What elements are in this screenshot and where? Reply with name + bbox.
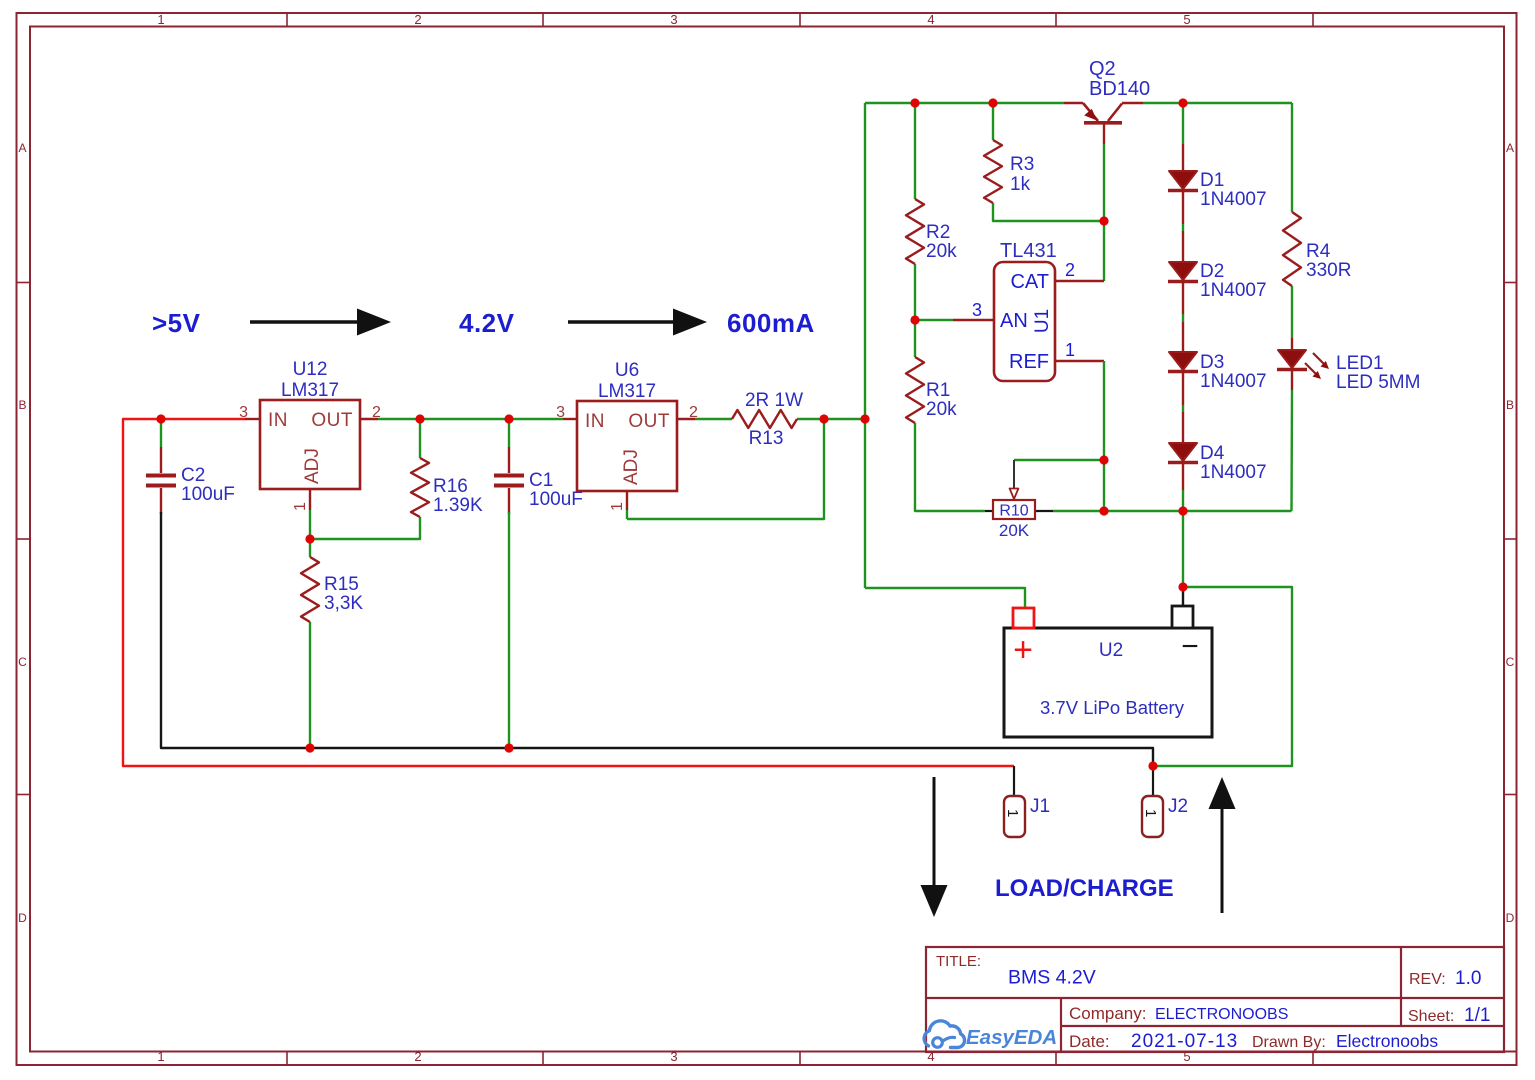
svg-text:2: 2 xyxy=(689,404,698,421)
svg-text:1/1: 1/1 xyxy=(1464,1005,1490,1026)
svg-text:BMS 4.2V: BMS 4.2V xyxy=(1008,967,1096,989)
wire D4 bottom xyxy=(1182,462,1184,587)
svg-text:B: B xyxy=(1506,398,1514,412)
svg-text:600mA: 600mA xyxy=(727,308,815,338)
wire Q2 base xyxy=(1103,123,1105,281)
wire to battery + xyxy=(865,588,1025,608)
wire LED bottom xyxy=(1290,371,1293,511)
wire R16 top xyxy=(419,419,421,458)
svg-text:Company:: Company: xyxy=(1069,1004,1146,1023)
svg-text:2: 2 xyxy=(414,1049,421,1064)
pin 3 U1 xyxy=(972,300,982,320)
svg-text:3: 3 xyxy=(556,404,565,421)
transistor Q2 BD140 xyxy=(1064,103,1143,123)
svg-text:D4: D4 xyxy=(1200,443,1225,464)
svg-text:U2: U2 xyxy=(1099,640,1123,661)
junction node (915,103) xyxy=(910,98,919,107)
svg-text:LM317: LM317 xyxy=(281,380,339,401)
wire GND black rail xyxy=(161,512,1153,766)
svg-text:LED 5MM: LED 5MM xyxy=(1336,372,1420,393)
junction node (1153,766) xyxy=(1148,761,1157,770)
label D3 xyxy=(1200,352,1224,373)
wire D2-D3 xyxy=(1182,281,1184,352)
flow arrow 1 xyxy=(250,309,391,336)
junction node (1104,221) xyxy=(1099,216,1108,225)
svg-text:100uF: 100uF xyxy=(529,489,583,510)
resistor R4 xyxy=(1283,212,1301,286)
svg-text:1.39K: 1.39K xyxy=(433,495,483,516)
potentiometer R10 xyxy=(985,460,1053,520)
svg-text:2R 1W: 2R 1W xyxy=(745,390,803,411)
label Q2 value xyxy=(1089,78,1150,100)
svg-text:ADJ: ADJ xyxy=(621,449,642,485)
resistor R13 xyxy=(732,410,797,428)
label C2 value xyxy=(181,484,235,505)
EasyEDA logo xyxy=(924,1021,1057,1049)
svg-text:TL431: TL431 xyxy=(1000,240,1057,262)
pin 1 U12 xyxy=(292,502,309,511)
svg-text:3: 3 xyxy=(670,1049,677,1064)
svg-text:C: C xyxy=(1506,655,1515,669)
wire R2-R1 mid xyxy=(914,264,916,357)
label R10 value xyxy=(999,521,1030,540)
pin 1 U1 xyxy=(1065,340,1075,360)
svg-text:C1: C1 xyxy=(529,470,553,491)
svg-text:−: − xyxy=(1181,630,1199,663)
svg-text:1.0: 1.0 xyxy=(1455,968,1481,989)
svg-text:A: A xyxy=(18,141,26,155)
pin 3 U6 xyxy=(556,404,565,421)
annotation 600mA xyxy=(727,308,815,338)
svg-text:1: 1 xyxy=(157,12,164,27)
wire U12 OUT rail xyxy=(360,418,563,420)
svg-text:3: 3 xyxy=(972,300,982,320)
svg-text:4: 4 xyxy=(927,12,934,27)
svg-text:R1: R1 xyxy=(926,380,950,401)
svg-text:C: C xyxy=(18,655,27,669)
label R16 xyxy=(433,476,468,497)
label R2 value xyxy=(926,241,957,262)
label Q2 xyxy=(1089,58,1116,80)
svg-text:U6: U6 xyxy=(615,360,639,381)
label R15 xyxy=(324,574,359,595)
connector J2 xyxy=(1142,796,1163,837)
wire R15 bottom xyxy=(309,622,311,748)
wire R3 top xyxy=(992,103,994,140)
svg-text:LOAD/CHARGE: LOAD/CHARGE xyxy=(995,875,1174,902)
junction node (915,320) xyxy=(910,315,919,324)
junction node (310,748) xyxy=(305,743,314,752)
label D1 value xyxy=(1200,189,1267,210)
svg-text:D1: D1 xyxy=(1200,170,1224,191)
label D3 value xyxy=(1200,371,1267,392)
resistor R1 xyxy=(906,357,924,423)
label U12 value xyxy=(281,380,339,401)
svg-text:Drawn By:: Drawn By: xyxy=(1252,1034,1326,1051)
junction node (824,419) xyxy=(819,414,828,423)
svg-text:OUT: OUT xyxy=(311,410,353,431)
LED LED1 xyxy=(1277,350,1329,379)
svg-text:LED1: LED1 xyxy=(1336,353,1384,374)
junction node (420,419) xyxy=(415,414,424,423)
pin 1 U6 xyxy=(609,502,626,511)
label R3 xyxy=(1010,154,1034,175)
svg-text:REF: REF xyxy=(1009,351,1049,373)
battery U2 box xyxy=(1004,606,1212,737)
wire C1 top xyxy=(508,419,510,473)
svg-text:3: 3 xyxy=(670,12,677,27)
wire D1 top xyxy=(1182,103,1184,171)
label C1 value xyxy=(529,489,583,510)
svg-text:1N4007: 1N4007 xyxy=(1200,371,1267,392)
wire battery - stub xyxy=(1182,587,1184,607)
junction node (1183,587) xyxy=(1178,582,1187,591)
annotation LOAD/CHARGE xyxy=(995,875,1174,902)
label R13 value xyxy=(745,390,803,411)
label R1 xyxy=(926,380,950,401)
capacitor C1 xyxy=(494,476,524,486)
svg-text:1: 1 xyxy=(292,502,309,511)
svg-text:4.2V: 4.2V xyxy=(459,308,515,338)
svg-text:1: 1 xyxy=(1065,340,1075,360)
svg-text:D: D xyxy=(1506,911,1515,925)
svg-text:Q2: Q2 xyxy=(1089,58,1116,80)
wire R15 top xyxy=(309,539,311,557)
label D2 value xyxy=(1200,280,1267,301)
label R2 xyxy=(926,222,950,243)
svg-text:OUT: OUT xyxy=(628,411,670,432)
title block xyxy=(926,947,1517,1052)
wire ADJ-R16 link xyxy=(310,517,420,539)
label J2 xyxy=(1168,796,1188,817)
junction node (310,539) xyxy=(305,534,314,543)
junction node (865,419) xyxy=(860,414,869,423)
label U2 xyxy=(1099,640,1123,661)
svg-text:U1: U1 xyxy=(1032,309,1053,333)
svg-text:20k: 20k xyxy=(926,241,957,262)
wire U6 OUT stub xyxy=(677,418,732,420)
junction node (1183,103) xyxy=(1178,98,1187,107)
svg-text:R4: R4 xyxy=(1306,241,1331,262)
svg-text:2: 2 xyxy=(414,12,421,27)
wire pot rail xyxy=(1053,510,1292,512)
wire R4 top xyxy=(1291,103,1293,212)
svg-text:Date:: Date: xyxy=(1069,1032,1110,1051)
annotation >5V xyxy=(152,308,201,338)
wire U12 IN pin stub xyxy=(245,418,260,420)
junction node (1104,511) xyxy=(1099,506,1108,515)
wire D3-D4 xyxy=(1182,371,1184,443)
svg-text:R2: R2 xyxy=(926,222,950,243)
junction node (993,103) xyxy=(988,98,997,107)
diode D1 1N4007 xyxy=(1168,171,1198,191)
label R1 value xyxy=(926,399,957,420)
wire REF pin xyxy=(1055,361,1104,511)
diode D2 1N4007 xyxy=(1168,262,1198,282)
diode D3 1N4007 xyxy=(1168,352,1198,372)
wire U6 ADJ feedback xyxy=(627,419,824,519)
label C2 xyxy=(181,465,205,486)
svg-text:R13: R13 xyxy=(749,428,784,449)
svg-text:+: + xyxy=(1013,631,1033,669)
svg-text:R15: R15 xyxy=(324,574,359,595)
label D4 value xyxy=(1200,462,1267,483)
label R4 xyxy=(1306,241,1331,262)
wire C2 bottom pin xyxy=(160,488,162,514)
svg-text:LM317: LM317 xyxy=(598,381,656,402)
svg-text:20k: 20k xyxy=(926,399,957,420)
arrow load down xyxy=(921,777,948,917)
junction node (509,748) xyxy=(504,743,513,752)
junction node (1183,511) xyxy=(1178,506,1187,515)
svg-text:1: 1 xyxy=(1142,809,1159,817)
svg-text:1: 1 xyxy=(609,502,626,511)
pin 2 U12 xyxy=(372,404,381,421)
svg-text:AN: AN xyxy=(1000,310,1028,332)
svg-text:100uF: 100uF xyxy=(181,484,235,505)
svg-text:20K: 20K xyxy=(999,521,1030,540)
resistor R2 xyxy=(906,199,924,264)
label TL431 xyxy=(1000,240,1057,262)
svg-text:330R: 330R xyxy=(1306,260,1351,281)
wire R1 bottom xyxy=(915,423,985,511)
label R16 value xyxy=(433,495,483,516)
wire U12 ADJ pin xyxy=(309,489,311,539)
wire U6 IN pin stub xyxy=(563,418,577,420)
wire R2 top xyxy=(914,103,916,199)
resistor R16 xyxy=(411,458,429,517)
svg-text:BD140: BD140 xyxy=(1089,78,1150,100)
resistor R15 xyxy=(301,557,319,622)
svg-text:3: 3 xyxy=(239,404,248,421)
svg-text:>5V: >5V xyxy=(152,308,201,338)
label D4 xyxy=(1200,443,1225,464)
pin 2 U6 xyxy=(689,404,698,421)
wire AN pin xyxy=(915,319,994,321)
label R3 value xyxy=(1010,174,1031,195)
svg-text:2: 2 xyxy=(372,404,381,421)
label LED1 value xyxy=(1336,372,1420,393)
connector J1 xyxy=(1004,796,1025,837)
junction node (1104,460) xyxy=(1099,455,1108,464)
label D2 xyxy=(1200,261,1224,282)
svg-text:IN: IN xyxy=(268,410,288,431)
wire J1 stub xyxy=(1013,766,1015,796)
svg-text:ADJ: ADJ xyxy=(302,448,323,484)
svg-text:ELECTRONOOBS: ELECTRONOOBS xyxy=(1155,1006,1288,1023)
svg-text:Sheet:: Sheet: xyxy=(1408,1008,1454,1025)
wire top rail left xyxy=(865,102,1064,104)
wire +5V input red xyxy=(123,419,1014,766)
svg-text:5: 5 xyxy=(1183,12,1190,27)
label U6 xyxy=(615,360,639,381)
wire node to top rail xyxy=(864,103,866,588)
wire J2 stub xyxy=(1152,766,1154,796)
regulator U6 LM317 box xyxy=(577,401,677,491)
wire R3 bottom xyxy=(993,203,1104,221)
svg-text:R10: R10 xyxy=(999,503,1028,520)
svg-text:1: 1 xyxy=(157,1049,164,1064)
wire R13 to node xyxy=(797,418,865,420)
svg-text:TITLE:: TITLE: xyxy=(936,953,981,970)
wire D1-D2 xyxy=(1182,190,1184,262)
svg-text:REV:: REV: xyxy=(1409,971,1446,988)
svg-text:1N4007: 1N4007 xyxy=(1200,280,1267,301)
svg-text:3.7V LiPo Battery: 3.7V LiPo Battery xyxy=(1040,697,1185,718)
diode D4 1N4007 xyxy=(1168,443,1198,463)
svg-text:1k: 1k xyxy=(1010,174,1031,195)
wire R4-LED xyxy=(1291,286,1293,350)
arrow charge up xyxy=(1209,777,1236,913)
svg-text:R16: R16 xyxy=(433,476,468,497)
svg-text:EasyEDA: EasyEDA xyxy=(966,1026,1057,1049)
wire pot wiper link xyxy=(1014,459,1104,461)
svg-text:2: 2 xyxy=(1065,260,1075,280)
svg-text:A: A xyxy=(1506,141,1514,155)
svg-text:D2: D2 xyxy=(1200,261,1224,282)
label R4 value xyxy=(1306,260,1351,281)
svg-text:J1: J1 xyxy=(1030,796,1050,817)
wire C1 bottom xyxy=(508,488,510,748)
flow arrow 2 xyxy=(568,309,707,336)
pin 2 U1 xyxy=(1065,260,1075,280)
regulator U12 LM317 box xyxy=(260,400,360,489)
label D1 xyxy=(1200,170,1224,191)
svg-text:1N4007: 1N4007 xyxy=(1200,189,1267,210)
annotation 4.2V xyxy=(459,308,515,338)
svg-text:CAT: CAT xyxy=(1010,271,1049,293)
svg-text:Electronoobs: Electronoobs xyxy=(1336,1031,1438,1051)
junction node (509,419) xyxy=(504,414,513,423)
label LED1 xyxy=(1336,353,1384,374)
wire U6 ADJ pin xyxy=(626,491,628,519)
label R15 value xyxy=(324,593,363,614)
label U12 xyxy=(293,359,328,380)
svg-text:D3: D3 xyxy=(1200,352,1224,373)
wire battery - to J2 xyxy=(1153,587,1292,766)
svg-text:2021-07-13: 2021-07-13 xyxy=(1131,1031,1238,1052)
svg-text:B: B xyxy=(18,398,26,412)
svg-text:R3: R3 xyxy=(1010,154,1034,175)
label C1 xyxy=(529,470,553,491)
svg-text:IN: IN xyxy=(585,411,605,432)
wire top rail right xyxy=(1143,102,1292,104)
label J1 xyxy=(1030,796,1050,817)
wire C2 top xyxy=(160,419,162,473)
svg-text:U12: U12 xyxy=(293,359,328,380)
pin 3 U12 xyxy=(239,404,248,421)
svg-text:1N4007: 1N4007 xyxy=(1200,462,1267,483)
capacitor C2 xyxy=(146,476,176,486)
svg-text:1: 1 xyxy=(1004,809,1021,817)
label U2 value xyxy=(1040,697,1185,718)
label R13 xyxy=(749,428,784,449)
junction node (161,419) xyxy=(156,414,165,423)
wire CAT pin xyxy=(1055,280,1104,282)
resistor R3 xyxy=(984,140,1002,203)
svg-text:C2: C2 xyxy=(181,465,205,486)
IC U1 TL431 box xyxy=(994,262,1055,381)
svg-text:J2: J2 xyxy=(1168,796,1188,817)
svg-text:D: D xyxy=(18,911,27,925)
label U6 value xyxy=(598,381,656,402)
svg-text:3,3K: 3,3K xyxy=(324,593,363,614)
